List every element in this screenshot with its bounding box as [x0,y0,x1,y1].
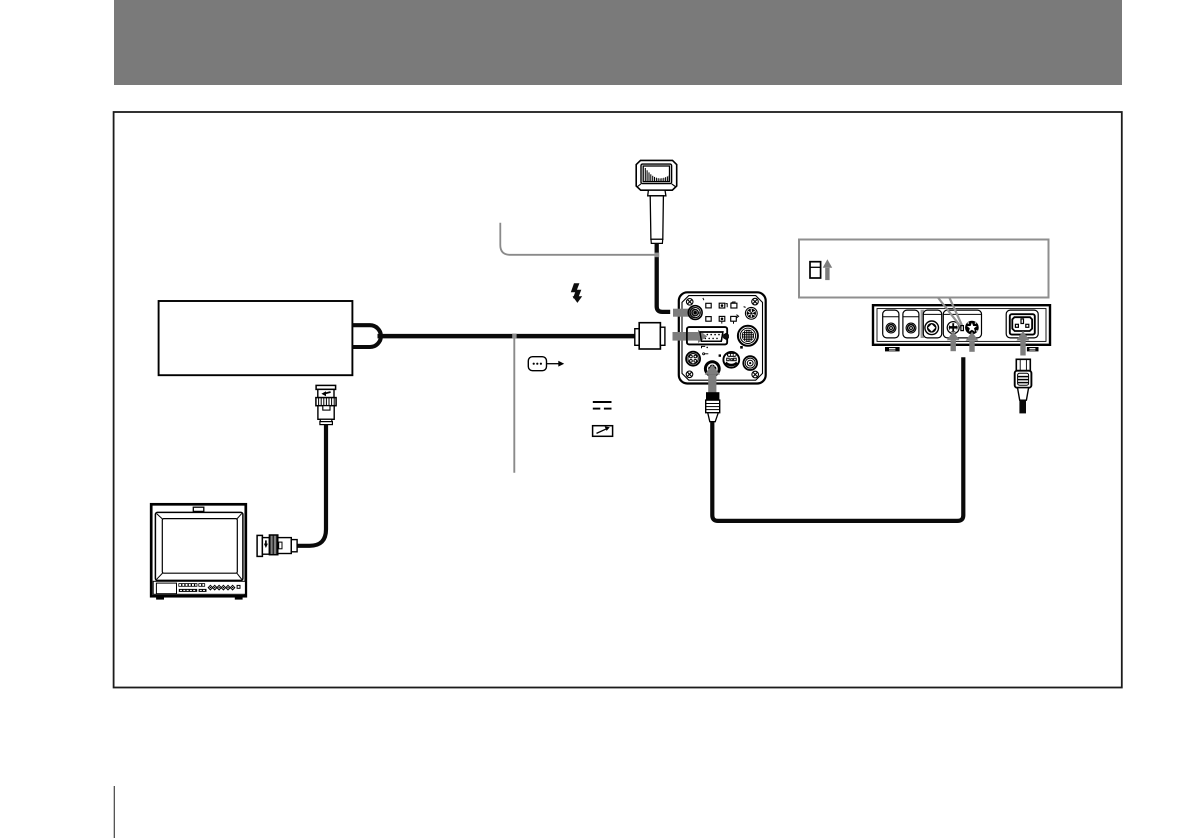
PSU BNC 2 [906,323,916,333]
PSU star connector [965,321,979,335]
CCU D-sub right hex nut [724,333,729,339]
monitor knobs [208,585,235,590]
camera barrel [650,196,663,240]
PSU module 3 [923,310,941,338]
PSU BNC 1 [886,323,896,333]
CCU DIP switch icons [706,303,737,321]
monitor bevel corner lines [157,514,242,580]
CCU D-sub trapezoid restroke [700,332,723,341]
AC plug below PSU [1016,359,1030,371]
camera barrel cap [651,239,663,243]
CCU BNC rings [688,306,702,320]
CCU base plate [679,292,766,383]
CCU D-sub box restroke [687,327,727,344]
power supply unit body [873,305,1050,345]
leader junction dot [655,253,660,258]
monitor screen [162,519,237,574]
horizontal BNC direction mark [265,540,267,544]
PSU DIN connector [947,321,960,334]
cable loop at box output [353,325,381,347]
camera neck [648,190,666,196]
processor box [159,301,353,375]
ferrite core arrow [546,363,559,365]
DC plug below CCU [707,393,719,400]
monitor button row [179,584,205,587]
diagram frame [114,112,1122,688]
vertical BNC knurl lines [319,398,335,406]
CCU multipin connector (top right) [745,307,757,319]
CCU D-sub left screw [692,334,697,339]
interface cable [378,334,641,339]
CCU sync connector (bottom right) [743,356,757,370]
vertical BNC plug below processor box [316,385,336,424]
monitor label strips [179,589,197,592]
DC symbol [593,402,612,409]
monitor feet [156,596,164,600]
CCU tiny panel labels [702,346,706,348]
header bar [114,0,1122,85]
horizontal BNC knurl lines [271,535,277,555]
CCU aux connector (bottom left) [686,352,700,366]
PSU DC switch [961,326,964,331]
PSU AC module [1006,310,1038,338]
power cable CCU to PSU [712,357,963,521]
arrow into PSU star connector [966,332,979,352]
video cable BNC to monitor [297,425,326,546]
vertical BNC direction mark [325,392,331,394]
monitor bezel [155,512,243,580]
CCU camera connector (large, right) [738,326,758,346]
CCU BNC connector (VIDEO OUT) white fill [688,306,702,320]
D-sub plug on interface cable [635,323,665,349]
camera cable [657,243,671,312]
arrow into CCU BNC [673,306,701,320]
CCU DC IN connector (bottom center) [704,360,721,377]
PSU right foot [1027,347,1039,351]
callout icon: gray up arrow [823,259,833,268]
arrow into CCU DC IN [705,365,720,393]
camera head vent bars [645,168,669,181]
CCU D-sub box [687,327,727,344]
CCU inner chamfered outline [682,296,763,381]
horizontal BNC plug at monitor [257,535,297,556]
monitor body [151,504,246,596]
CCU S-video connector (bottom middle right) [723,352,739,368]
callout box [799,240,1049,298]
arrow into PSU AC inlet [1017,331,1030,356]
CCU D-sub trapezoid and pins [700,332,723,341]
leader line to interface cable [513,337,515,473]
arrow into PSU DIN [947,331,960,351]
PSU left foot [885,347,900,351]
page margin tick [113,786,115,838]
PSU AC inlet [1010,314,1035,334]
PSU module 1 [883,310,899,338]
PSU module 4 [943,310,981,338]
ferrite core icon [528,357,546,371]
camera head body [636,160,677,190]
PSU gray stripe [921,310,924,338]
PSU module 2 [903,310,919,338]
leader line to camera cable [500,223,657,255]
monitor top tab [193,507,204,511]
monitor control panel [153,581,245,594]
arrow into CCU D-sub [673,330,708,343]
lightning bolt symbol [571,283,582,303]
leader lines from callout to PSU connectors [938,298,961,328]
CCU corner screws [686,298,758,378]
arrow-in-box symbol [593,426,613,437]
leader junction dot on cable [512,334,516,339]
PSU connector 3 [925,321,939,335]
callout icon: unit rectangle [810,262,821,278]
